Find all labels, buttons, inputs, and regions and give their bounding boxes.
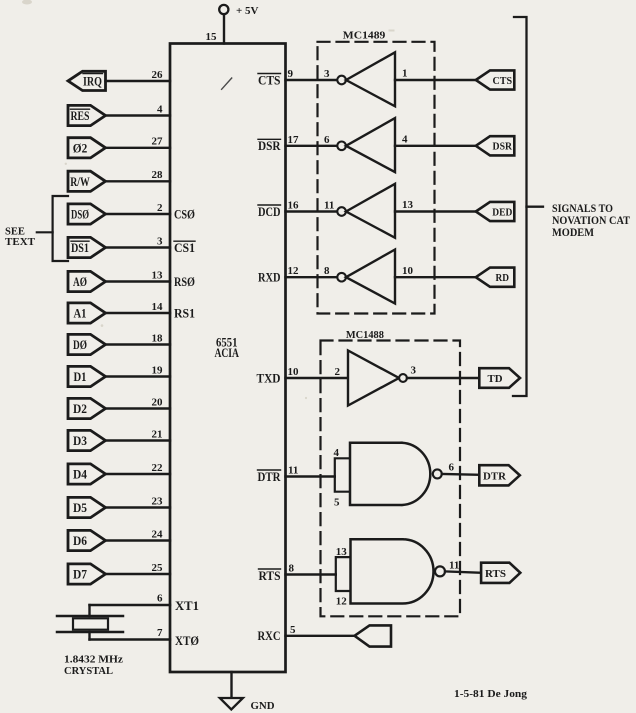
pin 8 label xyxy=(289,562,295,574)
svg-text:6: 6 xyxy=(157,593,163,605)
IRQ overline xyxy=(83,73,103,75)
TD flag label xyxy=(488,373,503,385)
svg-text:DSR: DSR xyxy=(258,139,281,153)
DCD overline xyxy=(258,204,281,206)
svg-text:ACIA: ACIA xyxy=(214,345,239,360)
+5V power terminal xyxy=(219,5,228,44)
svg-text:RTS: RTS xyxy=(259,569,281,583)
svg-text:4: 4 xyxy=(334,447,340,459)
svg-text:1: 1 xyxy=(402,68,408,80)
node D3 input flag xyxy=(68,430,106,450)
wire driver output to TD flag xyxy=(407,377,479,379)
D0 label xyxy=(73,338,87,352)
pin 11 output label xyxy=(449,559,459,571)
U1 pin label DSR xyxy=(258,139,281,153)
pin 7 label xyxy=(157,627,163,639)
receiver gate U2 CTS xyxy=(346,52,395,106)
svg-text:XT1: XT1 xyxy=(175,599,199,613)
node D5 input flag xyxy=(68,497,106,517)
wire IRQ to pin 26 xyxy=(106,80,171,82)
wire pin 9 to receiver input xyxy=(286,79,338,81)
pin 13 label xyxy=(402,199,414,211)
pin 4 label xyxy=(334,447,340,459)
wire receiver output to DED flag xyxy=(395,210,476,212)
svg-text:4: 4 xyxy=(157,103,163,115)
pin 27 label xyxy=(152,136,164,148)
svg-text:2: 2 xyxy=(157,202,163,214)
svg-text:9: 9 xyxy=(288,68,294,80)
svg-text:DSR: DSR xyxy=(493,141,513,153)
wire pin 16 to receiver input xyxy=(286,210,338,212)
node A1 input flag xyxy=(68,303,106,323)
pin 18 label xyxy=(152,332,164,344)
svg-text:MC1489: MC1489 xyxy=(343,29,386,41)
svg-text:D6: D6 xyxy=(73,534,87,548)
svg-text:16: 16 xyxy=(288,200,300,212)
caption SIGNALS TO NOVATION CAT MODEM xyxy=(552,203,630,239)
CS1 overline xyxy=(174,240,195,242)
svg-text:5: 5 xyxy=(290,624,296,636)
DED flag label xyxy=(492,206,512,218)
svg-text:SIGNALS TO: SIGNALS TO xyxy=(552,203,613,215)
node DSR flag xyxy=(476,136,515,155)
RES label xyxy=(71,109,90,123)
inverter bubble CTS receiver xyxy=(337,76,346,85)
pin 20 label xyxy=(152,396,164,408)
wire XT0 pin 7 xyxy=(90,632,171,640)
RES overline xyxy=(71,108,90,110)
wire receiver output to DSR flag xyxy=(395,145,476,147)
pin 14 label xyxy=(152,301,164,313)
node DS0 input flag xyxy=(68,204,106,224)
pin 4 label xyxy=(402,134,408,146)
DSR flag label xyxy=(493,141,513,153)
U1 pin label RS0 xyxy=(174,275,195,289)
NAND gate U3 RTS xyxy=(351,539,434,603)
U1 name label 6551 ACIA xyxy=(214,335,239,360)
DSR overline xyxy=(258,138,281,140)
node D4 input flag xyxy=(68,464,106,484)
svg-text:7: 7 xyxy=(157,627,163,639)
wire receiver output to CTS flag xyxy=(395,79,476,81)
pin 4 label xyxy=(157,103,163,115)
inverter bubble DSR receiver xyxy=(337,142,346,151)
node IRQ output flag xyxy=(68,71,106,90)
svg-text:15: 15 xyxy=(206,31,218,43)
ground symbol xyxy=(220,672,243,710)
pin 2 label xyxy=(335,366,341,378)
stray scan mark inside U1 xyxy=(222,78,232,89)
node 02 input flag xyxy=(68,138,106,158)
svg-text:A1: A1 xyxy=(74,307,87,321)
credit 1-5-81 De Jong xyxy=(454,688,528,700)
pin 22 label xyxy=(152,462,164,474)
svg-text:MC1488: MC1488 xyxy=(346,329,384,341)
pin 12 label xyxy=(288,265,300,277)
wire D6 to chip xyxy=(106,539,171,541)
receiver gate U2 DED xyxy=(346,184,395,238)
wire pin 11 DTR to gate inputs xyxy=(286,475,335,477)
node D1 input flag xyxy=(68,366,106,386)
svg-text:CRYSTAL: CRYSTAL xyxy=(64,665,113,677)
svg-text:AØ: AØ xyxy=(73,275,87,289)
svg-text:DED: DED xyxy=(492,206,512,218)
svg-text:3: 3 xyxy=(157,235,163,247)
wire RES to chip xyxy=(106,114,171,116)
svg-text:CS1: CS1 xyxy=(174,241,195,255)
driver TD output bubble xyxy=(399,374,407,382)
D7 label xyxy=(73,568,87,582)
svg-text:R/W: R/W xyxy=(70,175,90,189)
wire A1 to chip xyxy=(106,312,171,314)
crystal Y1 1.8432 MHz xyxy=(57,616,123,632)
inverter bubble DED receiver xyxy=(337,207,346,216)
node D2 input flag xyxy=(68,398,106,418)
svg-text:13: 13 xyxy=(152,269,164,281)
wire D3 to chip xyxy=(106,439,171,441)
svg-text:20: 20 xyxy=(152,396,164,408)
node RES input flag xyxy=(68,105,106,125)
svg-text:12: 12 xyxy=(336,595,348,607)
pin 9 label xyxy=(288,68,294,80)
wire RTS gate to RTS flag xyxy=(445,571,481,572)
svg-text:IRQ: IRQ xyxy=(83,74,102,88)
pin 2 label xyxy=(157,202,163,214)
svg-text:CTS: CTS xyxy=(258,73,281,87)
svg-text:18: 18 xyxy=(152,332,164,344)
node RD flag xyxy=(476,268,515,287)
svg-text:1.8432 MHz: 1.8432 MHz xyxy=(64,654,123,666)
wire DS1 to chip xyxy=(106,246,171,248)
pin 3 label xyxy=(324,68,330,80)
svg-text:NOVATION CAT: NOVATION CAT xyxy=(552,215,630,227)
CTS overline xyxy=(258,73,281,75)
svg-text:24: 24 xyxy=(152,528,164,540)
svg-text:2: 2 xyxy=(335,366,341,378)
svg-text:22: 22 xyxy=(152,462,164,474)
svg-text:11: 11 xyxy=(288,464,298,476)
node DTR flag xyxy=(479,465,520,485)
U1 pin label DCD xyxy=(258,205,281,219)
svg-text:13: 13 xyxy=(402,199,414,211)
U1 pin label CTS xyxy=(258,73,281,87)
pin 13 label xyxy=(336,546,348,558)
svg-text:4: 4 xyxy=(402,134,408,146)
pin 6 label xyxy=(449,462,455,474)
DTR flag label xyxy=(483,470,507,482)
node DED flag xyxy=(476,202,515,221)
svg-text:3: 3 xyxy=(324,68,330,80)
SEE TEXT label xyxy=(5,226,35,248)
RTS gate input tie bracket pins 13 12 xyxy=(336,557,351,591)
svg-text:RES: RES xyxy=(71,109,90,123)
svg-text:D1: D1 xyxy=(74,370,87,384)
RD flag label xyxy=(496,272,510,284)
D6 label xyxy=(73,534,87,548)
svg-text:5: 5 xyxy=(334,497,340,509)
svg-text:23: 23 xyxy=(152,495,164,507)
node D0 input flag xyxy=(68,334,106,354)
U1 pin label DTR xyxy=(258,470,282,484)
svg-text:+ 5V: + 5V xyxy=(236,5,259,17)
IC U3 MC1488 dashed outline xyxy=(321,341,461,617)
DTR gate output bubble xyxy=(433,469,442,478)
receiver gate U2 DSR xyxy=(346,118,395,172)
U1 pin label RXC xyxy=(258,629,281,643)
pin 8 label xyxy=(324,265,330,277)
wire D4 to chip xyxy=(106,473,171,475)
U1 pin label CS0 xyxy=(174,208,195,222)
node R/W input flag xyxy=(68,171,106,191)
svg-text:D3: D3 xyxy=(73,434,87,448)
wire D1 to chip xyxy=(106,375,171,377)
node D7 input flag xyxy=(68,564,106,584)
svg-text:27: 27 xyxy=(152,136,164,148)
svg-text:1-5-81 De Jong: 1-5-81 De Jong xyxy=(454,688,528,700)
pin 5 label xyxy=(334,497,340,509)
wire D5 to chip xyxy=(106,506,171,508)
pin 15 label xyxy=(206,31,218,43)
bracket for DS0 DS1 group xyxy=(37,196,68,261)
wire D2 to chip xyxy=(106,407,171,409)
svg-text:Ø2: Ø2 xyxy=(73,141,88,155)
svg-text:DØ: DØ xyxy=(73,338,87,352)
crystal value label xyxy=(64,654,123,678)
pin 21 label xyxy=(152,428,163,440)
02 label xyxy=(73,141,88,155)
wire D0 to chip xyxy=(106,343,171,345)
pin 28 label xyxy=(152,169,164,181)
DTR gate input tie bracket pins 4 5 xyxy=(335,458,350,491)
node RTS flag xyxy=(481,563,520,583)
wire pin 5 RXC to flag xyxy=(286,635,355,637)
pin 10 label xyxy=(288,366,300,378)
wire 02 to chip xyxy=(106,147,171,149)
svg-text:TXD: TXD xyxy=(257,371,281,385)
svg-text:19: 19 xyxy=(152,364,164,376)
pin 25 label xyxy=(152,562,164,574)
DS0 label xyxy=(71,208,89,222)
receiver gate U2 RD xyxy=(346,250,395,304)
U2 name label MC1489 xyxy=(343,29,386,41)
pin 5 RXC label xyxy=(290,624,296,636)
IC U2 MC1489 dashed outline xyxy=(318,42,435,314)
svg-text:SEE: SEE xyxy=(5,226,25,237)
U1 pin label RS1 xyxy=(174,307,195,321)
DTR overline xyxy=(258,469,281,471)
wire pin 8 RTS to gate inputs xyxy=(286,573,336,575)
wire pin 10 TXD to driver xyxy=(286,377,349,379)
inverter bubble RD receiver xyxy=(337,273,346,282)
svg-text:13: 13 xyxy=(336,546,348,558)
svg-text:D4: D4 xyxy=(73,468,88,482)
wire D7 to chip xyxy=(106,573,171,575)
node A0 input flag xyxy=(68,271,106,291)
D3 label xyxy=(73,434,87,448)
GND label xyxy=(251,700,275,712)
svg-text:3: 3 xyxy=(411,365,417,377)
wire DTR gate to DTR flag xyxy=(442,473,480,476)
RTS overline xyxy=(259,568,281,570)
pin 11 label xyxy=(288,464,298,476)
svg-text:6: 6 xyxy=(324,134,330,146)
svg-text:6: 6 xyxy=(449,462,455,474)
R/W label xyxy=(70,175,90,189)
svg-text:8: 8 xyxy=(324,265,330,277)
pin 17 label xyxy=(288,134,300,146)
svg-text:21: 21 xyxy=(152,428,163,440)
pin 6 label xyxy=(157,593,163,605)
pin 6 label xyxy=(324,134,330,146)
svg-text:12: 12 xyxy=(288,265,300,277)
node D6 input flag xyxy=(68,530,106,550)
DS1 label xyxy=(71,241,89,255)
pin 26 label xyxy=(152,69,164,81)
A0 label xyxy=(73,275,87,289)
svg-text:D2: D2 xyxy=(73,402,87,416)
wire A0 to chip xyxy=(106,280,171,282)
svg-text:DSØ: DSØ xyxy=(71,208,89,222)
svg-text:26: 26 xyxy=(152,69,164,81)
RTS flag label xyxy=(485,568,506,580)
pin 23 label xyxy=(152,495,164,507)
wire XT1 pin 6 xyxy=(90,605,171,616)
svg-text:TD: TD xyxy=(488,373,503,385)
svg-text:10: 10 xyxy=(402,265,414,277)
U1 pin label XT0 xyxy=(175,634,199,648)
svg-text:DCD: DCD xyxy=(258,205,281,219)
svg-text:RD: RD xyxy=(496,272,510,284)
wire R/W to chip xyxy=(106,180,171,182)
svg-text:RTS: RTS xyxy=(485,568,506,580)
D1 label xyxy=(74,370,87,384)
CTS flag label xyxy=(493,75,513,87)
svg-text:17: 17 xyxy=(288,134,300,146)
pin 1 label xyxy=(402,68,408,80)
pin 3 label xyxy=(157,235,163,247)
pin 24 label xyxy=(152,528,164,540)
pin 12 label xyxy=(336,595,348,607)
svg-text:D7: D7 xyxy=(73,568,87,582)
svg-text:RSØ: RSØ xyxy=(174,275,195,289)
svg-text:MODEM: MODEM xyxy=(552,227,594,239)
svg-text:CTS: CTS xyxy=(493,75,513,87)
node DS1 input flag xyxy=(68,237,106,257)
pin 19 label xyxy=(152,364,164,376)
U1 pin label CS1 xyxy=(174,241,195,255)
svg-text:10: 10 xyxy=(288,366,300,378)
A1 label xyxy=(74,307,87,321)
wire pin 12 to receiver input xyxy=(286,276,338,278)
pin 11 label xyxy=(324,200,334,212)
NAND gate U3 DTR xyxy=(350,443,430,505)
U1 pin label TXD xyxy=(257,371,281,385)
U3 name label MC1488 xyxy=(346,329,384,341)
svg-text:DS1: DS1 xyxy=(71,241,89,255)
svg-text:25: 25 xyxy=(152,562,164,574)
svg-text:11: 11 xyxy=(449,559,459,571)
svg-text:11: 11 xyxy=(324,200,334,212)
RTS gate output bubble xyxy=(435,566,445,576)
D5 label xyxy=(73,501,87,515)
wire DS0 to chip xyxy=(106,213,171,215)
D2 label xyxy=(73,402,87,416)
svg-text:8: 8 xyxy=(289,562,295,574)
svg-text:GND: GND xyxy=(251,700,275,712)
IC U1 6551 ACIA body xyxy=(170,44,286,673)
svg-text:28: 28 xyxy=(152,169,164,181)
pin 10 label xyxy=(402,265,414,277)
node CTS flag xyxy=(476,70,515,89)
svg-text:DTR: DTR xyxy=(483,470,507,482)
svg-text:TEXT: TEXT xyxy=(5,237,35,248)
svg-text:CSØ: CSØ xyxy=(174,208,195,222)
DS1 overline xyxy=(71,240,89,242)
U1 pin label XT1 xyxy=(175,599,199,613)
U1 pin label RTS xyxy=(259,569,281,583)
svg-text:XTØ: XTØ xyxy=(175,634,199,648)
IRQ label xyxy=(83,74,102,88)
svg-text:RXD: RXD xyxy=(258,271,281,285)
+5V label xyxy=(236,5,259,17)
svg-text:RXC: RXC xyxy=(258,629,281,643)
wire pin 17 to receiver input xyxy=(286,145,338,147)
svg-text:D5: D5 xyxy=(73,501,87,515)
U1 pin label RXD xyxy=(258,271,281,285)
driver gate U3 TD xyxy=(348,351,399,406)
node RXC flag unlabeled xyxy=(355,625,392,646)
D4 label xyxy=(73,468,88,482)
pin 16 label xyxy=(288,200,300,212)
node TD flag xyxy=(479,368,520,388)
pin 13 label xyxy=(152,269,164,281)
svg-text:14: 14 xyxy=(152,301,164,313)
wire receiver output to RD flag xyxy=(395,276,476,278)
bracket signals to modem xyxy=(513,17,543,396)
svg-text:RS1: RS1 xyxy=(174,307,195,321)
pin 3 label xyxy=(411,365,417,377)
svg-text:DTR: DTR xyxy=(258,470,282,484)
